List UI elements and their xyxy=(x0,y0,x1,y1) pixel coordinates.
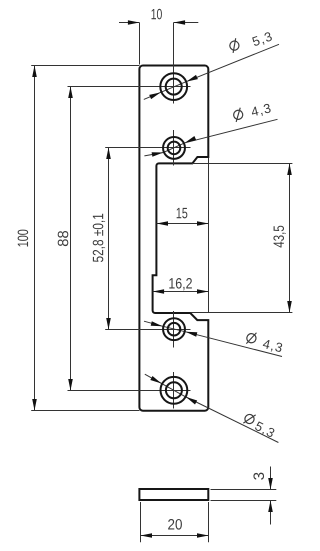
dim text 20 xyxy=(168,519,182,530)
dim text 88 (rotated) xyxy=(58,231,69,246)
hole 2 bore inner circle xyxy=(168,142,181,155)
dim text 43,5 (rotated) xyxy=(273,226,285,248)
dim text 100 (rotated) xyxy=(18,230,29,247)
leader text Ø 4,3 lower xyxy=(245,331,257,346)
dimension 3 line xyxy=(270,467,272,490)
centerline hole1 horizontal (88-dim extension) xyxy=(68,86,191,88)
leader hole3 diameter 4.3 xyxy=(144,321,282,356)
dimension 88 line xyxy=(70,87,72,391)
centerline hole2 horizontal (52.8-dim extension) xyxy=(105,147,190,149)
hole 4 countersink outer circle xyxy=(161,377,188,404)
15/16.2-dim right extension line (virtual right edge) xyxy=(208,158,210,313)
extension line bottom edge to 100-dim xyxy=(31,410,139,412)
hole 1 bore inner circle xyxy=(166,79,182,95)
10-dim left extension line xyxy=(139,23,141,65)
dimension 15 line xyxy=(157,223,209,225)
20-dim left extension line xyxy=(140,502,142,542)
hole 4 bore inner circle xyxy=(166,382,182,398)
leader text Ø 5,3 bottom xyxy=(242,411,256,427)
dimension 10 line xyxy=(119,22,139,24)
centerline hole3 vertical xyxy=(173,311,175,348)
leader text Ø 4,3 upper xyxy=(232,107,244,122)
centerline hole4 vertical xyxy=(173,372,175,409)
leader hole4 diameter 5.3 xyxy=(145,374,279,442)
dimension 20 line xyxy=(141,535,209,537)
dim text 52,8 ±0,1 (rotated) xyxy=(93,214,105,262)
centerline hole3 horizontal (52.8-dim extension) xyxy=(105,329,190,331)
extension line top edge to 100-dim xyxy=(31,65,139,67)
centerline hole2 vertical xyxy=(173,130,175,166)
plate outline (front view) xyxy=(139,66,208,411)
leader text Ø 5,3 top xyxy=(228,38,241,53)
dim text 10 xyxy=(152,9,162,20)
centerline hole4 horizontal (88-dim extension) xyxy=(68,390,191,392)
hole 3 bore inner circle xyxy=(168,323,181,336)
20-dim right extension line xyxy=(208,502,210,542)
dimension 52.8 line xyxy=(108,148,110,330)
centerline hole1 vertical / 10-dim extension xyxy=(173,23,175,104)
dimension 43.5 line xyxy=(289,164,291,313)
side view plate section xyxy=(139,489,208,500)
dim text 16,2 xyxy=(169,278,192,290)
leader hole2 diameter 4.3 xyxy=(144,119,277,156)
hole 3 countersink outer circle xyxy=(163,318,185,340)
dimension 100 line xyxy=(34,66,36,411)
3-dim upper extension line xyxy=(211,489,277,491)
hole 2 countersink outer circle xyxy=(163,137,185,159)
43.5-dim top extension line xyxy=(192,163,292,165)
3-dim lower extension line xyxy=(211,500,277,502)
dim text 3 (rotated) xyxy=(253,473,264,480)
leader hole1 diameter 5.3 xyxy=(144,44,279,99)
dimension 16.2 line xyxy=(153,291,209,293)
43.5-dim bottom extension line xyxy=(191,312,293,314)
dim text 15 xyxy=(177,208,188,218)
hole 1 countersink outer circle xyxy=(160,73,187,100)
